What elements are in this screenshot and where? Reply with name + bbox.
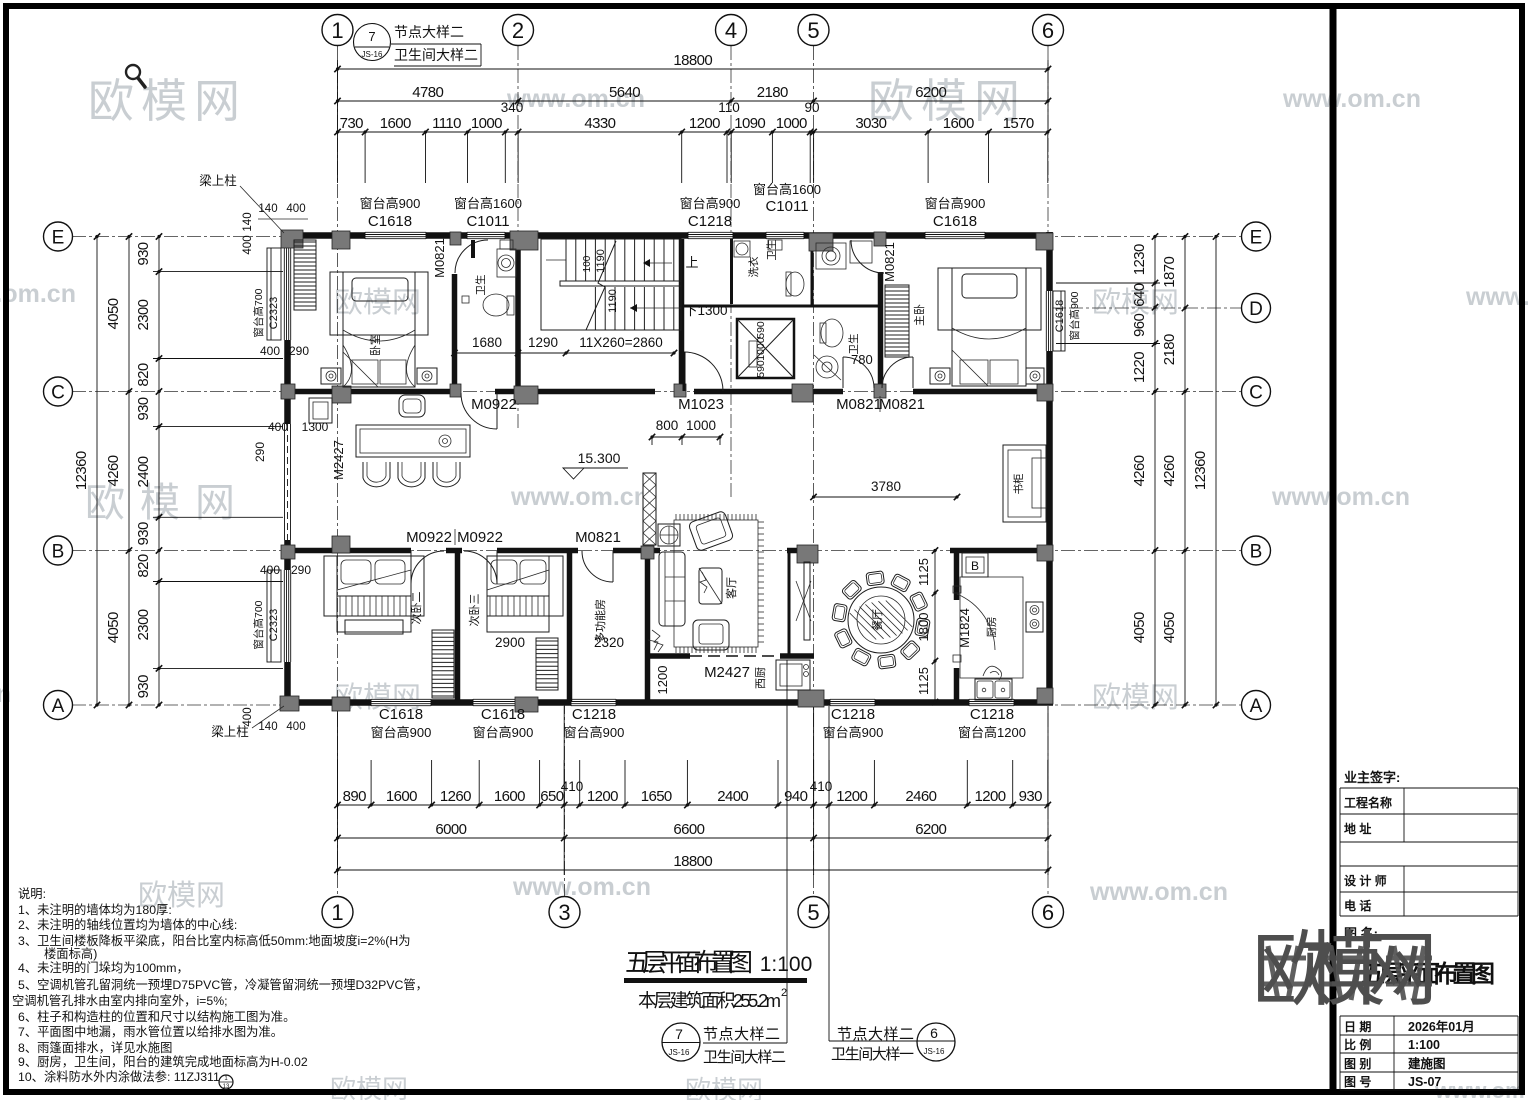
svg-text:窗台高700: 窗台高700 xyxy=(252,600,265,649)
svg-text:6: 6 xyxy=(1042,900,1054,925)
column xyxy=(1037,688,1053,704)
svg-text:上: 上 xyxy=(685,255,698,270)
bottom extension lines xyxy=(337,760,339,805)
svg-text:1200: 1200 xyxy=(587,788,618,805)
svg-text:1000: 1000 xyxy=(755,337,767,361)
svg-text:1000: 1000 xyxy=(686,418,716,433)
svg-text:4260: 4260 xyxy=(1131,455,1148,486)
svg-text:窗台高900: 窗台高900 xyxy=(823,725,884,740)
washer xyxy=(734,241,750,257)
leader line to bubble7 xyxy=(786,660,788,1043)
stair treads lower flight xyxy=(594,287,596,330)
svg-text:C1218: C1218 xyxy=(970,706,1014,723)
kitchen door arc xyxy=(957,594,995,650)
svg-text:290: 290 xyxy=(291,563,311,577)
svg-text:JS-07: JS-07 xyxy=(1408,1075,1441,1089)
axis bubbles right xyxy=(1242,222,1271,251)
sink double xyxy=(975,679,1012,700)
column xyxy=(514,386,538,404)
nightstand left xyxy=(930,368,950,384)
svg-text:C1218: C1218 xyxy=(572,706,616,723)
column xyxy=(798,690,824,707)
column xyxy=(1037,545,1053,561)
svg-text:C1618: C1618 xyxy=(368,213,412,230)
elevator shaft xyxy=(737,319,794,378)
svg-text:1:100: 1:100 xyxy=(760,953,813,976)
svg-text:13: 13 xyxy=(223,1084,230,1090)
svg-text:梁上柱: 梁上柱 xyxy=(199,173,237,188)
svg-text:400: 400 xyxy=(242,235,254,254)
svg-text:890: 890 xyxy=(343,788,366,805)
svg-text:C1011: C1011 xyxy=(765,198,808,215)
svg-text:1125: 1125 xyxy=(916,667,931,695)
detail bubble 7/JS-16 top xyxy=(354,24,391,61)
svg-text:次卧二: 次卧二 xyxy=(409,592,423,625)
svg-text:400: 400 xyxy=(268,420,288,434)
svg-text:5: 5 xyxy=(807,18,819,43)
svg-text:卫生: 卫生 xyxy=(474,275,487,296)
svg-text:节点大样二: 节点大样二 xyxy=(837,1026,914,1043)
svg-text:C1618: C1618 xyxy=(481,706,525,723)
svg-text:C1218: C1218 xyxy=(688,213,732,230)
nightstand right xyxy=(417,368,437,384)
svg-text:930: 930 xyxy=(135,522,152,545)
svg-text:400: 400 xyxy=(286,203,305,215)
svg-text:140: 140 xyxy=(258,721,277,733)
window C1011 top xyxy=(467,232,505,239)
svg-text:卧室: 卧室 xyxy=(368,334,382,356)
left dimension chain mid xyxy=(128,237,130,706)
svg-text:140: 140 xyxy=(242,212,254,231)
stair well xyxy=(541,239,681,330)
svg-text:2180: 2180 xyxy=(757,84,788,101)
svg-text:www.om.cn: www.om.cn xyxy=(1089,878,1228,906)
svg-text:D: D xyxy=(1249,299,1263,320)
living room bottom wall with sliding door M2427 xyxy=(649,653,690,659)
column xyxy=(281,545,295,559)
svg-text:4050: 4050 xyxy=(1131,612,1148,643)
svg-text:90: 90 xyxy=(804,100,819,115)
mattress hatch xyxy=(337,596,411,616)
svg-text:1:100: 1:100 xyxy=(1408,1038,1440,1052)
svg-text:窗台高1200: 窗台高1200 xyxy=(958,725,1026,740)
svg-text:590: 590 xyxy=(755,360,767,378)
svg-text:M0922: M0922 xyxy=(457,529,503,546)
column xyxy=(510,231,538,250)
svg-text:930: 930 xyxy=(135,675,152,698)
svg-text:西厨: 西厨 xyxy=(754,667,767,689)
svg-text:4330: 4330 xyxy=(584,115,615,132)
svg-text:4050: 4050 xyxy=(105,612,122,643)
stair break line xyxy=(586,241,616,330)
svg-text:厨房: 厨房 xyxy=(985,617,998,638)
svg-text:书柜: 书柜 xyxy=(1012,474,1025,495)
svg-text:6: 6 xyxy=(930,1025,938,1041)
armchair bottom xyxy=(693,620,729,650)
svg-text:2460: 2460 xyxy=(905,788,936,805)
stair arrows xyxy=(546,259,566,261)
column xyxy=(332,386,351,403)
bath1 sink xyxy=(497,249,516,277)
bottom dimension total xyxy=(338,869,1049,871)
round dining table xyxy=(848,587,914,653)
svg-text:2: 2 xyxy=(781,987,787,999)
svg-text:空调机管孔排水由室内排向室外，i=5%;: 空调机管孔排水由室内排向室外，i=5%; xyxy=(12,993,228,1008)
svg-text:图 号: 图 号 xyxy=(1344,1074,1371,1089)
svg-text:M2427: M2427 xyxy=(331,440,346,480)
nightstand left xyxy=(321,368,341,384)
svg-text:3、卫生间楼板降板平梁底，阳台比室内标高低50mm:地面坡度: 3、卫生间楼板降板平梁底，阳台比室内标高低50mm:地面坡度i=2%(H为 xyxy=(18,933,411,948)
column xyxy=(797,545,818,563)
svg-text:2、未注明的轴线位置均为墙体的中心线:: 2、未注明的轴线位置均为墙体的中心线: xyxy=(18,917,237,932)
svg-text:590: 590 xyxy=(755,321,767,339)
window C1618 top2 xyxy=(925,232,985,239)
shower xyxy=(816,356,838,378)
door M0922 arc into dining xyxy=(461,393,497,429)
svg-text:楼面标高): 楼面标高) xyxy=(44,946,97,961)
bath2 mirror cab xyxy=(850,241,872,263)
interior vertical walls top band xyxy=(452,274,458,391)
svg-text:欧模网: 欧模网 xyxy=(1252,925,1438,1016)
dining island table xyxy=(356,425,470,457)
grid axis lines xyxy=(337,46,339,896)
stove xyxy=(1026,602,1043,632)
svg-text:E: E xyxy=(1250,227,1263,248)
svg-text:930: 930 xyxy=(135,397,152,420)
svg-text:窗台高1600: 窗台高1600 xyxy=(454,196,522,211)
nightstand right xyxy=(1026,368,1044,384)
bed bedroom3 xyxy=(487,556,563,616)
stair dims xyxy=(455,352,675,354)
svg-text:JS-16: JS-16 xyxy=(924,1047,945,1056)
svg-text:400: 400 xyxy=(260,563,280,577)
svg-text:4、未注明的门垛均为100mm，: 4、未注明的门垛均为100mm， xyxy=(18,960,189,975)
svg-text:4050: 4050 xyxy=(1161,612,1178,643)
coffee table xyxy=(699,568,722,604)
svg-text:1870: 1870 xyxy=(1161,257,1178,288)
svg-text:C2323: C2323 xyxy=(268,609,280,641)
window C1618 bottom1 xyxy=(371,699,431,706)
column xyxy=(332,231,350,249)
svg-text:欧模网: 欧模网 xyxy=(685,1075,763,1100)
svg-text:820: 820 xyxy=(135,363,152,386)
exterior wall left xyxy=(284,232,291,705)
svg-text:18800: 18800 xyxy=(673,853,712,870)
svg-text:业主签字:: 业主签字: xyxy=(1344,770,1400,785)
svg-text:5: 5 xyxy=(807,900,819,925)
svg-text:2400: 2400 xyxy=(135,456,152,487)
svg-text:客厅: 客厅 xyxy=(724,577,738,599)
svg-text:洗衣: 洗衣 xyxy=(747,256,760,277)
svg-text:卫生间大样二: 卫生间大样二 xyxy=(703,1049,786,1066)
svg-text:M0821: M0821 xyxy=(575,529,621,546)
svg-text:9、厨房，卫生间，阳台的建筑完成地面标高为H-0.02: 9、厨房，卫生间，阳台的建筑完成地面标高为H-0.02 xyxy=(18,1054,308,1069)
dining chair top xyxy=(399,395,425,417)
svg-text:1090: 1090 xyxy=(734,115,765,132)
exterior wall bottom (A axis) xyxy=(283,699,1053,706)
svg-text:7: 7 xyxy=(675,1026,683,1042)
svg-text:1290: 1290 xyxy=(528,335,558,350)
svg-text:3030: 3030 xyxy=(855,115,886,132)
exterior wall right xyxy=(1046,232,1053,705)
svg-text:欧模网: 欧模网 xyxy=(88,75,240,127)
column xyxy=(874,232,886,246)
svg-text:960: 960 xyxy=(1131,313,1148,336)
svg-text:340: 340 xyxy=(501,100,524,115)
svg-text:730: 730 xyxy=(340,115,363,132)
svg-text:M0821: M0821 xyxy=(432,238,447,278)
svg-text:C: C xyxy=(51,382,65,403)
svg-text:窗台高900: 窗台高900 xyxy=(1068,291,1081,340)
svg-text:M0821: M0821 xyxy=(882,242,897,282)
right extension lines xyxy=(1056,282,1160,284)
svg-text:B: B xyxy=(971,559,979,573)
svg-text:1800: 1800 xyxy=(916,613,931,642)
wardrobe hatched right bedroom xyxy=(885,285,909,357)
svg-text:800: 800 xyxy=(656,418,679,433)
lower bath toilet xyxy=(821,319,843,347)
svg-text:卫生: 卫生 xyxy=(847,334,860,355)
bay window C2323 left upper xyxy=(284,248,291,340)
column xyxy=(674,384,686,397)
column xyxy=(1036,233,1053,250)
vanity counter xyxy=(816,243,846,269)
svg-text:JS-16: JS-16 xyxy=(669,1048,690,1057)
svg-text:6200: 6200 xyxy=(915,821,946,838)
svg-text:餐厅: 餐厅 xyxy=(870,609,884,631)
svg-text:2300: 2300 xyxy=(135,299,152,330)
svg-text:1000: 1000 xyxy=(471,115,502,132)
decor column hatched strip (hall) xyxy=(643,473,656,545)
svg-text:M0922: M0922 xyxy=(471,396,517,413)
bath1 door M0821 xyxy=(455,240,488,273)
svg-text:B: B xyxy=(1250,541,1263,562)
svg-text:次卧三: 次卧三 xyxy=(467,594,481,627)
svg-text:400: 400 xyxy=(242,707,254,726)
column xyxy=(809,233,833,251)
svg-text:7、平面图中地漏，雨水管位置以给排水图为准。: 7、平面图中地漏，雨水管位置以给排水图为准。 xyxy=(18,1024,283,1039)
svg-text:M0922: M0922 xyxy=(406,529,452,546)
window C1218 bottom kitchen xyxy=(969,699,1014,706)
interior wall C axis xyxy=(283,389,460,395)
svg-text:1000: 1000 xyxy=(776,115,807,132)
dining chairs around xyxy=(915,618,931,637)
window C1618 right xyxy=(1046,291,1053,351)
bottom dimension row1 xyxy=(338,804,1048,806)
svg-text:7: 7 xyxy=(368,29,375,44)
svg-text:940: 940 xyxy=(784,788,807,805)
detail bubble 6 bottom xyxy=(917,1023,955,1061)
svg-text:窗台高900: 窗台高900 xyxy=(680,196,741,211)
svg-text:5640: 5640 xyxy=(609,84,640,101)
svg-text:说明:: 说明: xyxy=(18,886,46,901)
svg-text:1600: 1600 xyxy=(380,115,411,132)
svg-text:卫生间大样二: 卫生间大样二 xyxy=(394,47,478,63)
column xyxy=(332,536,350,553)
svg-text:2026年01月: 2026年01月 xyxy=(1408,1019,1475,1034)
column xyxy=(450,232,461,245)
armchair top (tilted) xyxy=(688,510,734,551)
bay window C2323 left lower xyxy=(284,570,291,662)
svg-text:2900: 2900 xyxy=(495,635,525,650)
svg-text:窗台高900: 窗台高900 xyxy=(360,196,421,211)
svg-text:窗台高700: 窗台高700 xyxy=(252,288,265,337)
bay window protrusion right xyxy=(1053,291,1065,351)
svg-text:3780: 3780 xyxy=(871,479,901,494)
svg-text:设 计 师: 设 计 师 xyxy=(1344,873,1387,888)
twin doors M0821 in C wall xyxy=(843,357,874,388)
svg-text:400: 400 xyxy=(260,344,280,358)
svg-text:1570: 1570 xyxy=(1003,115,1034,132)
svg-text:www.om.cn: www.om.cn xyxy=(512,873,651,901)
svg-text:1190: 1190 xyxy=(607,289,619,313)
vent fan symbol xyxy=(658,524,680,546)
svg-text:12360: 12360 xyxy=(1192,451,1209,490)
svg-text:窗台高900: 窗台高900 xyxy=(473,725,534,740)
svg-text:窗台高900: 窗台高900 xyxy=(925,196,986,211)
svg-text:6、柱子和构造柱的位置和尺寸以结构施工图为准。: 6、柱子和构造柱的位置和尺寸以结构施工图为准。 xyxy=(18,1009,295,1024)
svg-text:C1618: C1618 xyxy=(933,213,977,230)
axis bubbles bottom xyxy=(322,897,353,928)
svg-text:B: B xyxy=(52,541,65,562)
window C1218 bottom3 xyxy=(571,699,616,706)
svg-text:节点大样二: 节点大样二 xyxy=(703,1026,780,1043)
left dimension total 12360 xyxy=(96,237,98,706)
top extension lines xyxy=(337,132,339,183)
leader line to bubble6 xyxy=(828,706,830,1041)
bottom dimension row2 xyxy=(338,837,1049,839)
faucet scribble xyxy=(983,666,1002,680)
right dimension chain inner xyxy=(1154,237,1156,706)
detail bubble 7 bottom xyxy=(662,1023,700,1061)
svg-text:下1300: 下1300 xyxy=(684,303,728,318)
svg-text:1200: 1200 xyxy=(689,115,720,132)
interior vertical walls bottom band xyxy=(455,553,461,701)
svg-text:6600: 6600 xyxy=(673,821,704,838)
title block divider xyxy=(1330,6,1337,1092)
svg-text:窗台高900: 窗台高900 xyxy=(564,725,625,740)
svg-text:窗台高900: 窗台高900 xyxy=(371,725,432,740)
svg-text:1230: 1230 xyxy=(1131,244,1148,275)
fridge cabinet xyxy=(309,398,332,423)
plant corner xyxy=(648,630,663,652)
column xyxy=(792,384,813,402)
corridor door M1023 xyxy=(684,352,723,391)
svg-text:卫生间大样一: 卫生间大样一 xyxy=(831,1046,914,1063)
axis bubbles left xyxy=(44,222,73,251)
exterior wall top (E axis) xyxy=(283,232,1053,239)
svg-text:www.om.cn: www.om.cn xyxy=(510,483,649,511)
bed bedroom2 xyxy=(324,556,424,616)
svg-text:五层平面布置图: 五层平面布置图 xyxy=(625,949,753,977)
svg-text:820: 820 xyxy=(135,554,152,577)
svg-text:4: 4 xyxy=(725,18,737,43)
svg-text:www.o: www.o xyxy=(1465,283,1528,311)
bath2 door arc top xyxy=(851,240,884,273)
svg-text:4050: 4050 xyxy=(105,298,122,329)
svg-text:M1824: M1824 xyxy=(957,608,972,648)
svg-text:290: 290 xyxy=(253,442,267,462)
window C1618 top1 xyxy=(365,232,426,239)
laundry toilet xyxy=(786,272,804,296)
svg-text:140: 140 xyxy=(258,203,277,215)
small box top xyxy=(768,240,782,250)
door M0821 multi xyxy=(582,551,613,582)
svg-text:2: 2 xyxy=(512,18,524,43)
svg-text:日 期: 日 期 xyxy=(1344,1019,1371,1034)
tall cabinet right wall xyxy=(1003,445,1046,522)
left extension lines xyxy=(153,271,283,273)
svg-text:2300: 2300 xyxy=(135,609,152,640)
svg-text:1600: 1600 xyxy=(494,788,525,805)
svg-text:C1011: C1011 xyxy=(466,213,509,230)
svg-text:本层建筑面积255.2m: 本层建筑面积255.2m xyxy=(638,990,781,1011)
svg-text:E: E xyxy=(52,227,65,248)
svg-text:6200: 6200 xyxy=(915,84,946,101)
svg-text:3: 3 xyxy=(558,900,570,925)
svg-text:1125: 1125 xyxy=(916,558,931,586)
fridge B marker xyxy=(962,553,988,577)
balcony rail bottom xyxy=(660,702,814,704)
bay sliding door M2427 left mid xyxy=(284,424,291,540)
svg-text:290: 290 xyxy=(289,344,309,358)
svg-text:640: 640 xyxy=(1131,283,1148,306)
TV panel xyxy=(804,562,810,640)
wardrobe hatched top-left xyxy=(294,240,316,310)
svg-text:2400: 2400 xyxy=(717,788,748,805)
svg-text:工程名称: 工程名称 xyxy=(1344,795,1392,810)
svg-text:1: 1 xyxy=(331,900,343,925)
door M0922 bedroom3 xyxy=(464,551,497,584)
svg-text:A: A xyxy=(1250,696,1263,717)
bed top-right xyxy=(938,268,1041,330)
sofa L xyxy=(659,552,685,626)
floor drain xyxy=(462,296,469,303)
svg-text:C: C xyxy=(1249,382,1263,403)
window C1011 top2 xyxy=(766,232,804,239)
svg-text:C1218: C1218 xyxy=(831,706,875,723)
svg-text:M0821: M0821 xyxy=(836,396,882,413)
stair center rail xyxy=(560,281,681,286)
svg-text:15.300: 15.300 xyxy=(578,450,621,466)
svg-text:8、雨篷面排水，详见水施图: 8、雨篷面排水，详见水施图 xyxy=(18,1040,172,1055)
svg-text:1、未注明的墙体均为180厚:: 1、未注明的墙体均为180厚: xyxy=(18,902,172,917)
svg-text:节点大样二: 节点大样二 xyxy=(394,24,464,40)
svg-text:窗台高1600: 窗台高1600 xyxy=(753,182,821,197)
svg-text:1110: 1110 xyxy=(432,115,461,132)
svg-text:4780: 4780 xyxy=(412,84,443,101)
column xyxy=(515,697,538,712)
svg-text:1680: 1680 xyxy=(472,335,502,350)
window C1618 bottom2 xyxy=(473,699,533,706)
svg-text:多功能房: 多功能房 xyxy=(593,599,607,643)
wardrobe bedroom3 xyxy=(536,638,558,690)
interior wall B axis xyxy=(283,548,411,554)
svg-text:1200: 1200 xyxy=(975,788,1006,805)
svg-text:1260: 1260 xyxy=(440,788,471,805)
svg-text:C1618: C1618 xyxy=(379,706,423,723)
rug xyxy=(674,520,758,647)
svg-text:18800: 18800 xyxy=(673,52,712,69)
wardrobe bedroom2 xyxy=(432,630,454,698)
svg-text:1650: 1650 xyxy=(641,788,672,805)
svg-text:www.om.cn: www.om.cn xyxy=(1271,483,1410,511)
left dimension chain inner xyxy=(158,237,160,706)
svg-text:www.om.cn: www.om.cn xyxy=(1282,85,1421,113)
right dimension total 12360 xyxy=(1215,237,1217,706)
svg-text:110: 110 xyxy=(718,100,740,115)
svg-text:JS-16: JS-16 xyxy=(362,50,383,59)
